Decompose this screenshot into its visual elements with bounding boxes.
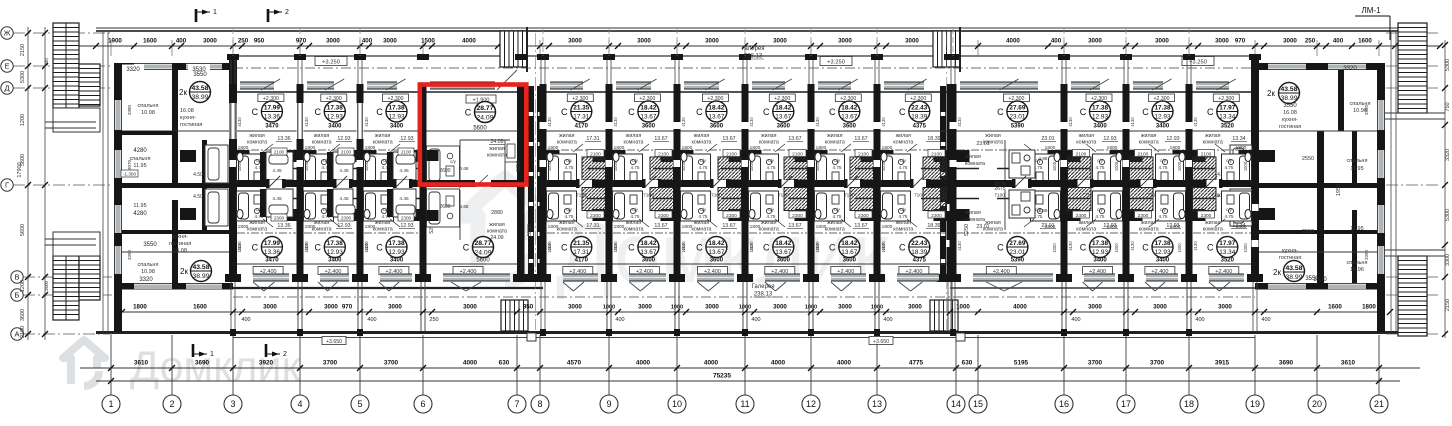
svg-text:400: 400: [1261, 317, 1270, 323]
svg-text:17.38: 17.38: [1155, 105, 1171, 112]
svg-text:комната: комната: [1139, 140, 1159, 146]
svg-text:комната: комната: [983, 227, 1003, 233]
svg-text:3550: 3550: [1283, 103, 1297, 109]
svg-text:комната: комната: [487, 153, 507, 159]
svg-text:1: 1: [108, 399, 113, 409]
svg-text:11.95: 11.95: [133, 163, 146, 169]
svg-text:Галерея: Галерея: [741, 46, 764, 52]
svg-text:3600: 3600: [642, 124, 656, 130]
svg-text:4.68: 4.68: [1039, 208, 1048, 213]
svg-text:2300: 2300: [590, 213, 601, 219]
svg-text:3915: 3915: [1215, 360, 1230, 367]
svg-text:Е: Е: [4, 62, 9, 71]
svg-text:13.67: 13.67: [722, 223, 735, 229]
svg-text:жилая: жилая: [896, 133, 912, 139]
svg-text:3520: 3520: [1221, 124, 1235, 130]
svg-text:17.31: 17.31: [573, 114, 589, 121]
svg-text:3390: 3390: [127, 249, 132, 260]
svg-text:18.39: 18.39: [911, 114, 927, 121]
svg-text:38.99: 38.99: [1285, 274, 1302, 281]
svg-text:3600: 3600: [843, 124, 857, 130]
svg-text:с/у: с/у: [768, 158, 775, 163]
svg-text:3690: 3690: [195, 360, 210, 367]
svg-text:комната: комната: [691, 140, 711, 146]
svg-text:10: 10: [672, 399, 682, 409]
svg-text:4.68: 4.68: [1039, 156, 1048, 161]
svg-text:3070: 3070: [127, 159, 132, 170]
svg-text:2300: 2300: [858, 213, 869, 219]
svg-text:17.31: 17.31: [586, 136, 599, 142]
svg-text:1: 1: [213, 9, 217, 16]
svg-text:4.45: 4.45: [272, 168, 282, 174]
svg-text:18.42: 18.42: [708, 240, 724, 247]
svg-text:1000: 1000: [1052, 161, 1057, 171]
svg-text:с/у: с/у: [566, 158, 573, 163]
svg-text:4.68: 4.68: [460, 166, 469, 171]
svg-text:В: В: [14, 273, 19, 282]
svg-text:2к: 2к: [1273, 268, 1281, 277]
svg-text:17.38: 17.38: [389, 240, 405, 247]
svg-text:4.75: 4.75: [1225, 214, 1234, 219]
svg-text:2100: 2100: [1076, 152, 1087, 158]
svg-text:5: 5: [357, 399, 362, 409]
svg-text:4.75: 4.75: [899, 165, 908, 170]
svg-text:комната: комната: [1203, 140, 1223, 146]
svg-text:1800: 1800: [238, 145, 249, 151]
svg-text:1800: 1800: [365, 145, 376, 151]
svg-text:12.93: 12.93: [327, 249, 343, 256]
svg-text:38.99: 38.99: [1280, 95, 1297, 102]
svg-text:3600: 3600: [44, 280, 49, 291]
svg-text:жилая: жилая: [694, 133, 710, 139]
svg-text:3000: 3000: [568, 304, 582, 311]
svg-text:1955: 1955: [1336, 184, 1342, 196]
svg-text:с/у: с/у: [450, 159, 457, 164]
svg-text:комната: комната: [825, 227, 845, 233]
svg-text:13.67: 13.67: [654, 136, 667, 142]
svg-text:4.50: 4.50: [193, 172, 203, 178]
svg-text:250: 250: [238, 38, 249, 45]
svg-text:400: 400: [1051, 38, 1062, 45]
svg-text:2550: 2550: [1302, 229, 1314, 235]
svg-text:С: С: [763, 243, 770, 253]
svg-text:17.99: 17.99: [264, 240, 280, 247]
svg-text:жилая: жилая: [314, 220, 330, 226]
svg-text:21.35: 21.35: [573, 240, 589, 247]
svg-text:2к: 2к: [1267, 89, 1275, 98]
svg-text:5250: 5250: [964, 224, 970, 236]
svg-text:С: С: [376, 107, 383, 117]
svg-text:3600: 3600: [777, 124, 791, 130]
svg-text:24.09: 24.09: [490, 235, 503, 241]
svg-text:С: С: [315, 243, 322, 253]
svg-text:3400: 3400: [390, 124, 404, 130]
svg-text:3700: 3700: [323, 360, 338, 367]
svg-text:1000: 1000: [681, 243, 686, 253]
svg-text:1000: 1000: [364, 161, 369, 171]
svg-text:10.98: 10.98: [141, 269, 155, 275]
svg-text:С: С: [696, 107, 703, 117]
svg-text:2150: 2150: [1445, 299, 1451, 311]
svg-text:жилая: жилая: [1079, 133, 1095, 139]
svg-text:4130: 4130: [237, 117, 242, 127]
svg-text:10.98: 10.98: [141, 110, 155, 116]
svg-text:жилая: жилая: [694, 220, 710, 226]
svg-text:970: 970: [296, 38, 307, 45]
svg-text:1200: 1200: [20, 280, 26, 292]
svg-text:18.42: 18.42: [841, 240, 857, 247]
svg-text:27.69: 27.69: [1009, 105, 1025, 112]
svg-text:1000: 1000: [871, 305, 883, 311]
svg-text:жилая: жилая: [761, 133, 777, 139]
svg-text:комната: комната: [759, 227, 779, 233]
svg-text:13.67: 13.67: [640, 249, 656, 256]
svg-text:3000: 3000: [263, 304, 277, 311]
svg-text:3400: 3400: [328, 124, 342, 130]
svg-text:спальня: спальня: [1347, 260, 1368, 266]
svg-text:4.45: 4.45: [272, 196, 282, 202]
svg-text:гостиная: гостиная: [180, 122, 202, 128]
svg-text:12.93: 12.93: [337, 223, 350, 229]
svg-text:17.31: 17.31: [586, 223, 599, 229]
svg-text:4.75: 4.75: [1159, 214, 1168, 219]
svg-text:5195: 5195: [1014, 360, 1029, 367]
svg-text:кухня-: кухня-: [1282, 248, 1298, 254]
svg-text:3690: 3690: [1279, 360, 1294, 367]
svg-text:1000: 1000: [1052, 243, 1057, 253]
svg-text:+3.650: +3.650: [326, 339, 342, 345]
svg-text:2100: 2100: [274, 150, 285, 155]
svg-text:10.96: 10.96: [1353, 108, 1367, 114]
svg-text:С: С: [696, 243, 703, 253]
svg-text:3000: 3000: [383, 38, 397, 45]
svg-text:2к: 2к: [180, 267, 188, 276]
svg-text:13.67: 13.67: [708, 114, 724, 121]
svg-text:13.67: 13.67: [640, 114, 656, 121]
svg-text:3700: 3700: [1088, 360, 1103, 367]
svg-text:4.75: 4.75: [1159, 165, 1168, 170]
svg-text:13.67: 13.67: [788, 136, 801, 142]
svg-text:11.95: 11.95: [1350, 226, 1363, 232]
svg-text:1800: 1800: [133, 304, 147, 311]
svg-text:13.36: 13.36: [264, 114, 280, 121]
svg-text:630: 630: [499, 360, 510, 367]
svg-text:400: 400: [362, 38, 373, 45]
svg-text:1600: 1600: [193, 304, 207, 311]
svg-text:жилая: жилая: [1205, 220, 1221, 226]
svg-text:250: 250: [1305, 38, 1316, 45]
svg-text:с/у: с/у: [700, 158, 707, 163]
svg-text:24.09: 24.09: [474, 250, 491, 257]
svg-text:жилая: жилая: [249, 133, 265, 139]
svg-text:2100: 2100: [726, 152, 737, 158]
svg-text:3000: 3000: [463, 304, 477, 311]
svg-text:3600: 3600: [20, 309, 26, 321]
svg-text:18: 18: [1184, 399, 1194, 409]
svg-text:С: С: [899, 107, 906, 117]
svg-text:17.99: 17.99: [264, 105, 280, 112]
svg-text:жилая: жилая: [559, 133, 575, 139]
svg-text:14: 14: [951, 399, 961, 409]
svg-text:4.75: 4.75: [631, 214, 640, 219]
svg-text:2550: 2550: [1302, 156, 1314, 162]
svg-text:4130: 4130: [613, 117, 618, 127]
svg-text:13.34: 13.34: [1232, 223, 1245, 229]
svg-text:17.38: 17.38: [1092, 105, 1108, 112]
svg-text:3400: 3400: [328, 258, 342, 264]
svg-text:28.77: 28.77: [474, 240, 491, 247]
svg-text:1800: 1800: [882, 145, 893, 151]
svg-text:+3.650: +3.650: [873, 339, 889, 345]
svg-text:кухня-: кухня-: [1282, 117, 1298, 123]
svg-text:1500: 1500: [421, 38, 435, 45]
svg-text:3600: 3600: [710, 124, 724, 130]
svg-text:4130: 4130: [1193, 117, 1198, 127]
svg-text:17: 17: [1121, 399, 1131, 409]
svg-text:жилая: жилая: [1205, 133, 1221, 139]
svg-text:комната: комната: [1076, 227, 1096, 233]
svg-text:кухня-: кухня-: [180, 115, 196, 121]
svg-text:комната: комната: [247, 227, 267, 233]
svg-text:21.35: 21.35: [573, 105, 589, 112]
svg-text:3000: 3000: [326, 38, 340, 45]
svg-text:11.95: 11.95: [1350, 166, 1363, 172]
svg-text:1000: 1000: [364, 243, 369, 253]
svg-text:3470: 3470: [265, 258, 279, 264]
svg-text:жилая: жилая: [827, 133, 843, 139]
svg-text:с/у: с/у: [834, 158, 841, 163]
svg-text:4170: 4170: [575, 258, 589, 264]
svg-text:2к: 2к: [179, 88, 187, 97]
svg-text:3000: 3000: [1155, 38, 1169, 45]
svg-text:17.38: 17.38: [327, 240, 343, 247]
svg-text:11.95: 11.95: [133, 203, 146, 209]
svg-text:1000: 1000: [1177, 161, 1182, 171]
svg-text:400: 400: [1333, 38, 1344, 45]
svg-text:12.93: 12.93: [1166, 136, 1179, 142]
svg-text:С: С: [463, 243, 470, 253]
svg-text:4130: 4130: [1068, 241, 1073, 251]
svg-text:4280: 4280: [133, 211, 147, 217]
svg-text:16.08: 16.08: [180, 108, 194, 114]
svg-text:13.36: 13.36: [277, 223, 290, 229]
svg-text:комната: комната: [623, 140, 643, 146]
svg-text:2100: 2100: [792, 152, 803, 158]
svg-text:18.42: 18.42: [775, 240, 791, 247]
svg-text:23.01: 23.01: [976, 141, 989, 147]
svg-text:23.01: 23.01: [1041, 223, 1054, 229]
svg-text:кухня-: кухня-: [172, 234, 188, 240]
svg-text:9: 9: [606, 399, 611, 409]
svg-text:комната: комната: [1203, 227, 1223, 233]
svg-text:13.36: 13.36: [277, 136, 290, 142]
svg-text:2300: 2300: [341, 216, 352, 221]
svg-text:1800: 1800: [1362, 304, 1376, 311]
svg-text:2300: 2300: [1201, 213, 1212, 219]
svg-text:2300: 2300: [401, 216, 412, 221]
svg-text:С: С: [829, 243, 836, 253]
svg-text:С: С: [1142, 243, 1149, 253]
svg-text:13.36: 13.36: [264, 249, 280, 256]
svg-text:5390: 5390: [1011, 258, 1025, 264]
svg-text:3000: 3000: [637, 38, 651, 45]
svg-text:2600: 2600: [439, 168, 450, 174]
svg-text:3400: 3400: [1156, 124, 1170, 130]
svg-text:2675: 2675: [994, 182, 1005, 188]
svg-text:5600: 5600: [20, 224, 26, 236]
svg-text:17900: 17900: [17, 162, 23, 177]
svg-text:1000: 1000: [1243, 161, 1248, 171]
svg-text:1000: 1000: [739, 305, 751, 311]
svg-text:12.93: 12.93: [1155, 114, 1171, 121]
svg-text:гостиная: гостиная: [1279, 255, 1301, 261]
svg-text:2100: 2100: [931, 152, 942, 158]
svg-text:1000: 1000: [547, 243, 552, 253]
svg-text:23.01: 23.01: [1009, 249, 1025, 256]
svg-text:3470: 3470: [265, 124, 279, 130]
svg-text:1000: 1000: [237, 243, 242, 253]
svg-text:4130: 4130: [364, 117, 369, 127]
svg-text:1000: 1000: [1243, 243, 1248, 253]
svg-text:400: 400: [1071, 317, 1080, 323]
svg-text:4000: 4000: [837, 360, 852, 367]
svg-text:3400: 3400: [390, 258, 404, 264]
svg-text:С: С: [628, 243, 635, 253]
svg-text:13.34: 13.34: [1219, 114, 1235, 121]
svg-text:400: 400: [883, 317, 892, 323]
svg-text:1000: 1000: [237, 161, 242, 171]
svg-text:4: 4: [297, 399, 302, 409]
svg-text:18.42: 18.42: [775, 105, 791, 112]
svg-text:23.01: 23.01: [1041, 136, 1054, 142]
svg-text:1000: 1000: [805, 305, 817, 311]
svg-text:3320: 3320: [1343, 66, 1357, 72]
svg-text:1800: 1800: [750, 145, 761, 151]
svg-text:3000: 3000: [1088, 38, 1102, 45]
svg-text:1000: 1000: [304, 243, 309, 253]
svg-text:жилая: жилая: [761, 220, 777, 226]
svg-text:3000: 3000: [773, 38, 787, 45]
svg-text:4375: 4375: [913, 258, 927, 264]
svg-text:комната: комната: [825, 140, 845, 146]
svg-text:2300: 2300: [931, 213, 942, 219]
svg-text:жилая: жилая: [985, 220, 1001, 226]
svg-text:18.39: 18.39: [911, 249, 927, 256]
svg-text:Д: Д: [4, 84, 9, 93]
svg-text:комната: комната: [312, 140, 332, 146]
svg-text:3610: 3610: [1341, 360, 1356, 367]
svg-text:с/у: с/у: [700, 207, 707, 212]
svg-text:16.08: 16.08: [1283, 110, 1297, 116]
svg-text:3000: 3000: [905, 38, 919, 45]
svg-text:С: С: [899, 243, 906, 253]
svg-text:3000: 3000: [1218, 304, 1232, 311]
svg-text:4.75: 4.75: [1225, 165, 1234, 170]
svg-text:900: 900: [44, 58, 49, 66]
svg-text:1800: 1800: [1170, 145, 1181, 151]
svg-text:4.45: 4.45: [339, 196, 349, 202]
svg-text:жилая: жилая: [375, 133, 391, 139]
svg-text:12.93: 12.93: [337, 136, 350, 142]
svg-text:750: 750: [1445, 102, 1451, 111]
svg-text:4000: 4000: [1013, 304, 1027, 311]
svg-text:4.75: 4.75: [833, 165, 842, 170]
svg-text:Г: Г: [5, 181, 9, 190]
svg-text:С: С: [1207, 107, 1214, 117]
svg-text:22.43: 22.43: [911, 105, 927, 112]
svg-text:1800: 1800: [548, 145, 559, 151]
svg-text:12.93: 12.93: [1103, 136, 1116, 142]
svg-text:4000: 4000: [704, 360, 719, 367]
svg-text:с/у: с/у: [1226, 158, 1233, 163]
svg-text:8: 8: [537, 399, 542, 409]
svg-text:13.67: 13.67: [708, 249, 724, 256]
svg-text:4130: 4130: [681, 117, 686, 127]
svg-text:2100: 2100: [1201, 152, 1212, 158]
svg-text:1000: 1000: [681, 161, 686, 171]
svg-text:3400: 3400: [1093, 258, 1107, 264]
svg-text:2: 2: [283, 351, 287, 358]
svg-text:С: С: [376, 243, 383, 253]
svg-text:13.67: 13.67: [775, 249, 791, 256]
svg-text:2300: 2300: [274, 216, 285, 221]
svg-text:2100: 2100: [590, 152, 601, 158]
svg-text:12.93: 12.93: [327, 114, 343, 121]
svg-text:17.38: 17.38: [1155, 240, 1171, 247]
svg-text:3: 3: [230, 399, 235, 409]
svg-text:2300: 2300: [1076, 213, 1087, 219]
svg-text:13.34: 13.34: [1219, 249, 1235, 256]
svg-text:3300: 3300: [1445, 254, 1451, 266]
svg-text:спальня: спальня: [130, 156, 151, 162]
svg-text:13.67: 13.67: [854, 223, 867, 229]
svg-text:с/у: с/у: [632, 207, 639, 212]
svg-text:2100: 2100: [341, 150, 352, 155]
svg-text:3000: 3000: [388, 304, 402, 311]
svg-text:С: С: [829, 107, 836, 117]
svg-text:4.45: 4.45: [399, 168, 409, 174]
svg-text:С: С: [1207, 243, 1214, 253]
svg-text:17.38: 17.38: [327, 105, 343, 112]
svg-text:20: 20: [1312, 399, 1322, 409]
svg-text:С: С: [252, 107, 259, 117]
svg-text:4.75: 4.75: [1096, 214, 1105, 219]
svg-text:2100: 2100: [1138, 152, 1149, 158]
svg-text:жилая: жилая: [626, 220, 642, 226]
svg-text:4000: 4000: [462, 38, 476, 45]
svg-text:238.13: 238.13: [754, 292, 773, 298]
svg-text:4170: 4170: [575, 124, 589, 130]
svg-text:400: 400: [367, 317, 376, 323]
svg-text:16: 16: [1059, 399, 1069, 409]
svg-text:С: С: [763, 107, 770, 117]
svg-text:комната: комната: [247, 140, 267, 146]
svg-text:С: С: [315, 107, 322, 117]
svg-text:жилая: жилая: [1141, 133, 1157, 139]
svg-text:3320: 3320: [139, 277, 153, 283]
svg-text:1800: 1800: [682, 145, 693, 151]
svg-text:4.68: 4.68: [460, 204, 469, 209]
svg-text:Галерея: Галерея: [751, 284, 774, 290]
svg-text:3000: 3000: [1215, 38, 1229, 45]
svg-text:3600: 3600: [777, 258, 791, 264]
svg-text:4000: 4000: [463, 360, 478, 367]
svg-text:1600: 1600: [143, 38, 157, 45]
svg-text:17.31: 17.31: [573, 249, 589, 256]
svg-text:4.75: 4.75: [767, 214, 776, 219]
svg-text:1600: 1600: [1328, 304, 1342, 311]
svg-text:4130: 4130: [1068, 117, 1073, 127]
